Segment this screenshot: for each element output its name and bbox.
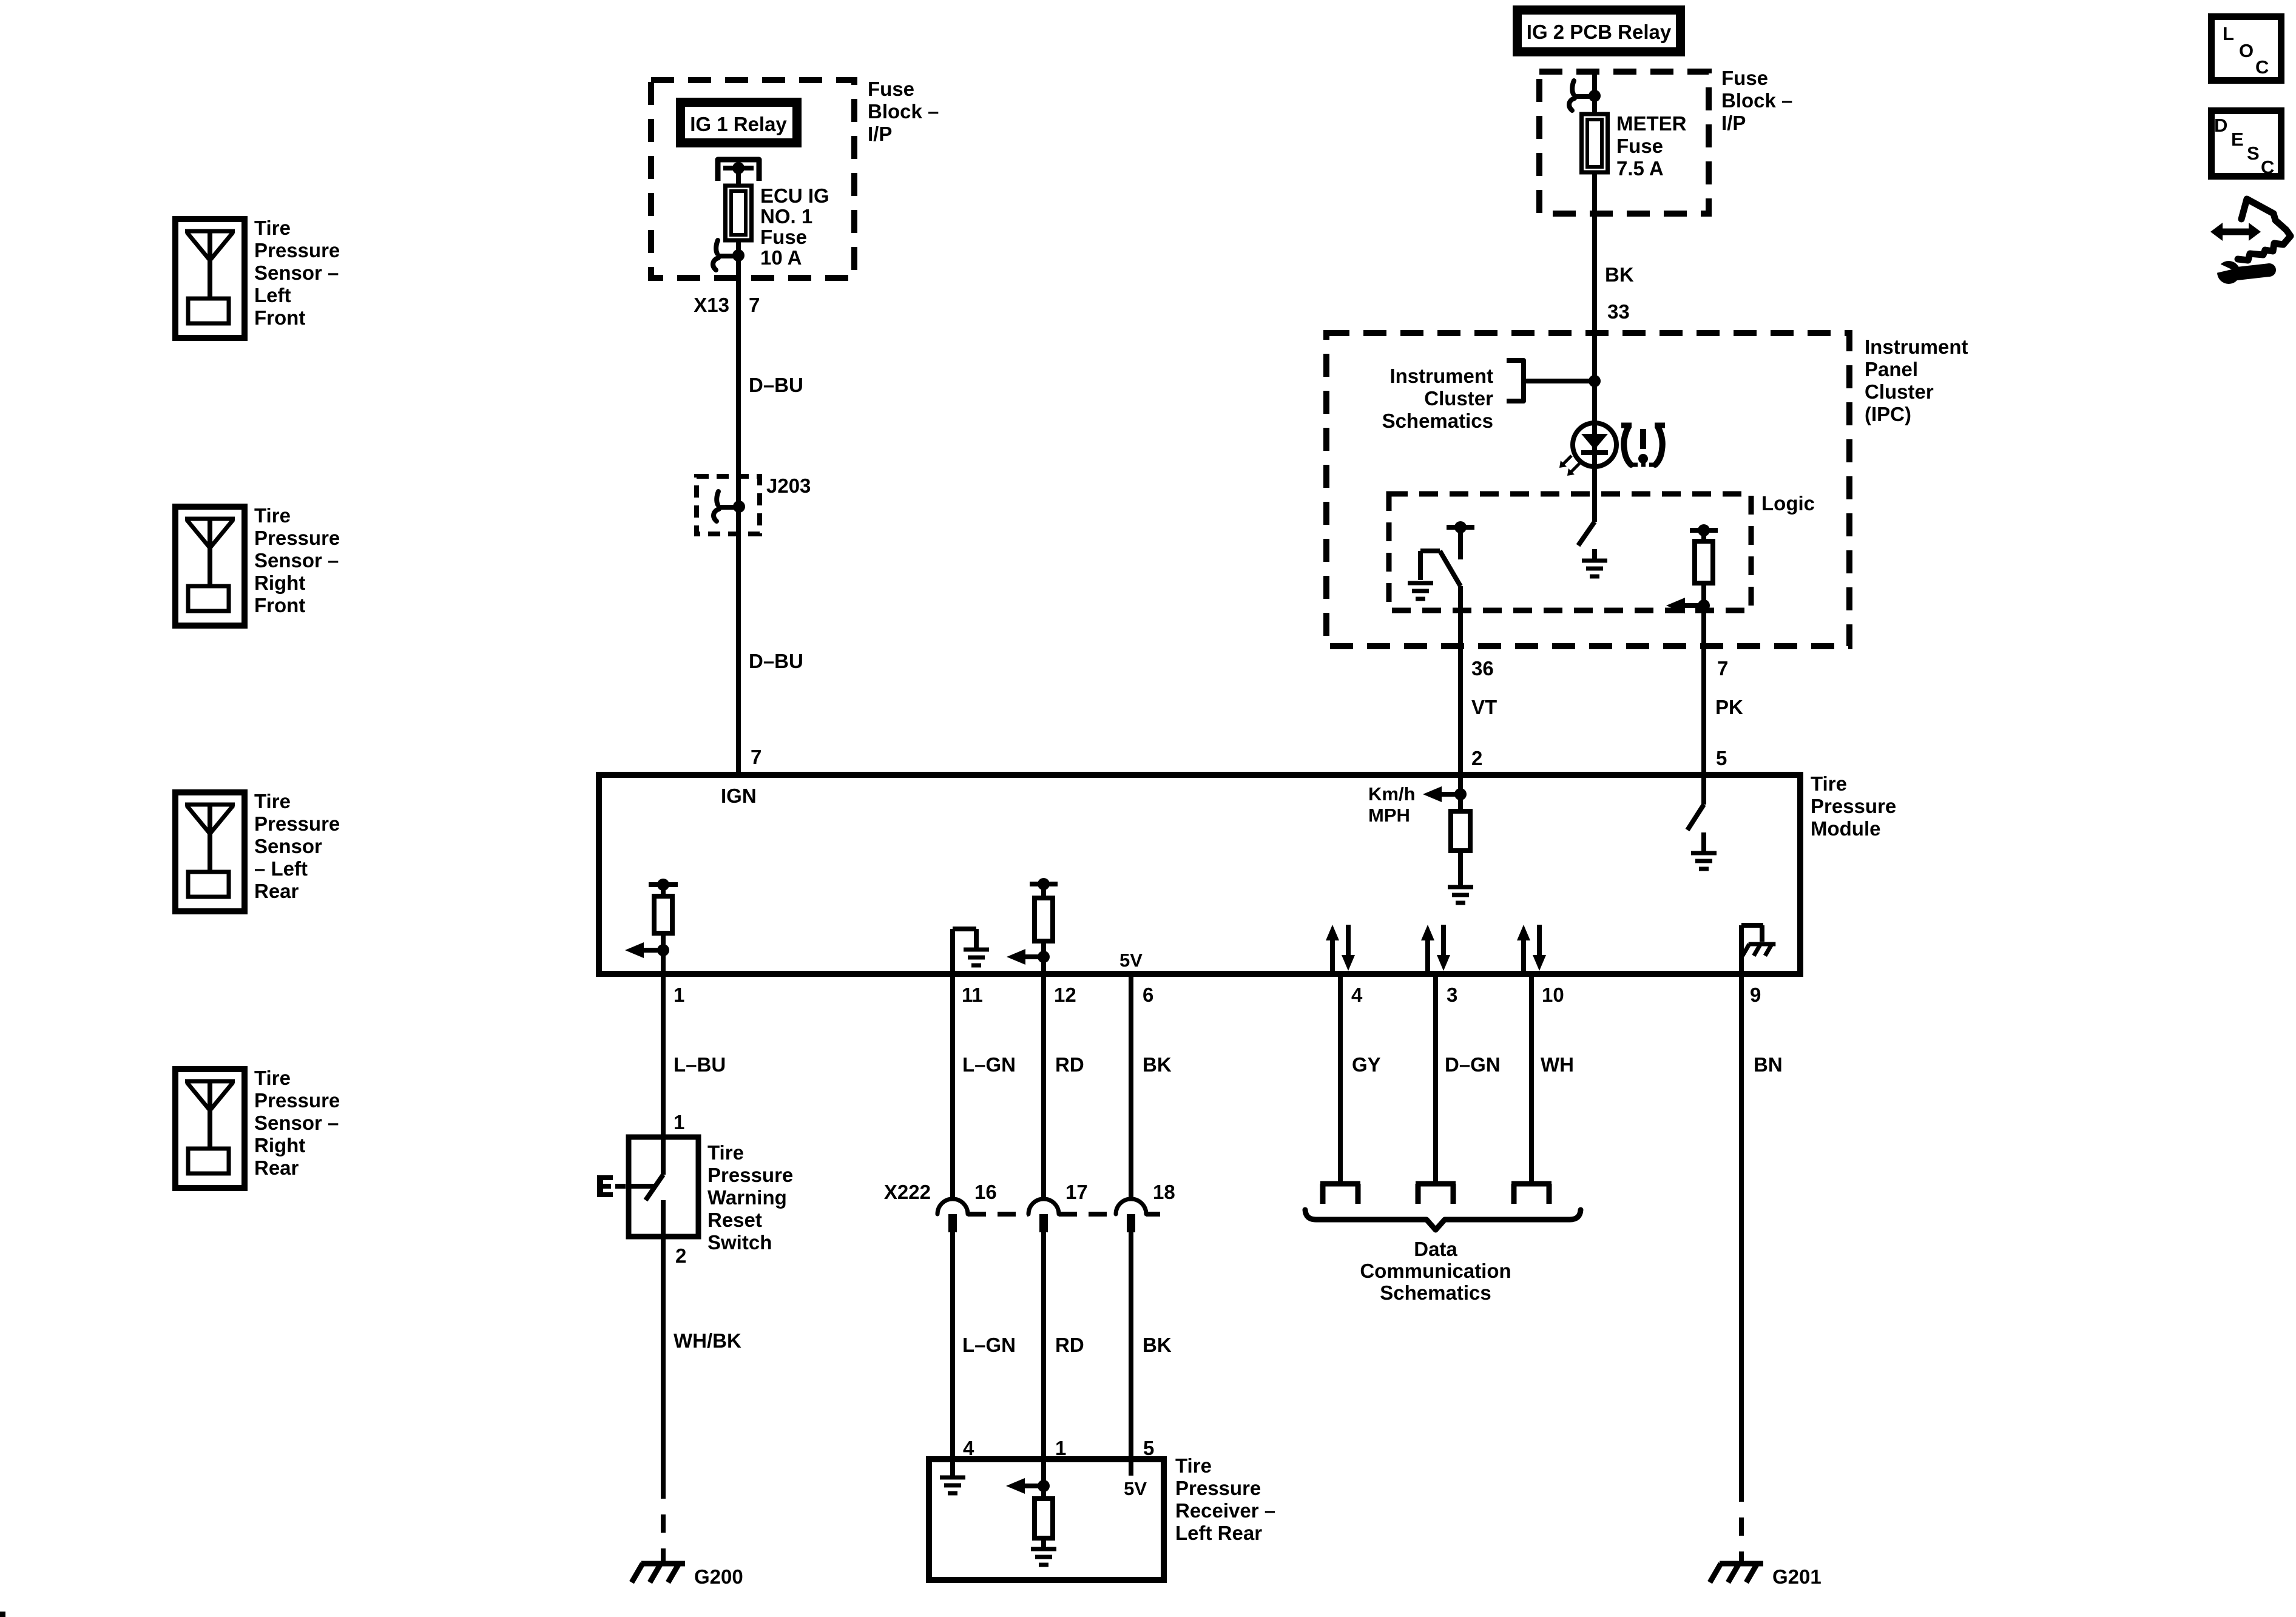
svg-text:7: 7 bbox=[749, 294, 760, 316]
svg-text:X222: X222 bbox=[884, 1181, 931, 1203]
svg-text:G201: G201 bbox=[1772, 1565, 1822, 1588]
svg-text:11: 11 bbox=[962, 984, 983, 1006]
svg-text:Schematics: Schematics bbox=[1382, 410, 1493, 432]
svg-text:36: 36 bbox=[1471, 657, 1494, 680]
svg-text:7.5 A: 7.5 A bbox=[1616, 157, 1664, 180]
svg-text:1: 1 bbox=[674, 984, 684, 1006]
svg-text:D–GN: D–GN bbox=[1445, 1053, 1501, 1076]
svg-text:Pressure: Pressure bbox=[707, 1164, 793, 1186]
svg-text:Front: Front bbox=[254, 306, 305, 329]
svg-text:Switch: Switch bbox=[707, 1231, 772, 1254]
svg-text:C: C bbox=[2261, 157, 2274, 178]
svg-text:VT: VT bbox=[1471, 696, 1497, 718]
svg-text:Front: Front bbox=[254, 594, 305, 616]
svg-text:Left: Left bbox=[254, 284, 291, 306]
svg-text:2: 2 bbox=[675, 1244, 686, 1267]
svg-text:5V: 5V bbox=[1124, 1478, 1147, 1499]
svg-text:Pressure: Pressure bbox=[254, 527, 340, 549]
svg-text:G200: G200 bbox=[694, 1565, 743, 1588]
svg-text:BK: BK bbox=[1143, 1053, 1172, 1076]
svg-text:Fuse: Fuse bbox=[1721, 67, 1768, 89]
svg-text:D–BU: D–BU bbox=[749, 650, 803, 672]
svg-text:J203: J203 bbox=[766, 474, 811, 497]
svg-text:L–BU: L–BU bbox=[674, 1053, 726, 1076]
svg-text:Sensor: Sensor bbox=[254, 835, 322, 857]
svg-text:S: S bbox=[2247, 143, 2260, 164]
svg-text:Receiver –: Receiver – bbox=[1175, 1499, 1275, 1522]
svg-text:10 A: 10 A bbox=[760, 246, 802, 269]
svg-text:Tire: Tire bbox=[254, 504, 291, 527]
svg-text:(IPC): (IPC) bbox=[1865, 403, 1911, 425]
svg-text:16: 16 bbox=[974, 1181, 997, 1203]
svg-text:METER: METER bbox=[1616, 112, 1687, 135]
svg-text:Left Rear: Left Rear bbox=[1175, 1522, 1262, 1544]
svg-text:RD: RD bbox=[1055, 1334, 1084, 1356]
svg-text:Instrument: Instrument bbox=[1865, 336, 1968, 358]
svg-text:18: 18 bbox=[1153, 1181, 1175, 1203]
svg-text:Warning: Warning bbox=[707, 1186, 787, 1209]
svg-text:Pressure: Pressure bbox=[1811, 795, 1896, 817]
svg-text:10: 10 bbox=[1542, 984, 1564, 1006]
svg-text:IGN: IGN bbox=[721, 785, 757, 807]
svg-text:Reset: Reset bbox=[707, 1209, 762, 1231]
svg-text:7: 7 bbox=[1717, 657, 1728, 680]
svg-text:Instrument: Instrument bbox=[1389, 365, 1493, 387]
svg-text:O: O bbox=[2239, 40, 2254, 61]
svg-text:4: 4 bbox=[963, 1437, 974, 1459]
svg-text:BK: BK bbox=[1605, 263, 1634, 286]
svg-text:X13: X13 bbox=[694, 294, 729, 316]
svg-text:Logic: Logic bbox=[1761, 492, 1815, 515]
svg-text:Tire: Tire bbox=[707, 1141, 744, 1164]
svg-text:Sensor –: Sensor – bbox=[254, 262, 339, 284]
svg-text:Rear: Rear bbox=[254, 1156, 299, 1179]
svg-text:5: 5 bbox=[1716, 747, 1727, 769]
svg-text:Data: Data bbox=[1414, 1238, 1457, 1260]
svg-text:Right: Right bbox=[254, 1134, 305, 1156]
svg-text:Pressure: Pressure bbox=[254, 239, 340, 262]
svg-text:Block –: Block – bbox=[1721, 89, 1792, 112]
svg-text:5V: 5V bbox=[1119, 950, 1143, 971]
svg-text:33: 33 bbox=[1607, 300, 1630, 323]
svg-text:Tire: Tire bbox=[1175, 1454, 1212, 1477]
svg-text:Pressure: Pressure bbox=[254, 812, 340, 835]
svg-text:Pressure: Pressure bbox=[1175, 1477, 1261, 1499]
svg-text:Tire: Tire bbox=[254, 1067, 291, 1089]
svg-text:E: E bbox=[2231, 129, 2244, 150]
svg-text:RD: RD bbox=[1055, 1053, 1084, 1076]
svg-text:Cluster: Cluster bbox=[1424, 387, 1493, 410]
svg-text:ECU IG: ECU IG bbox=[760, 184, 829, 207]
svg-text:D–BU: D–BU bbox=[749, 374, 803, 396]
svg-text:MPH: MPH bbox=[1368, 805, 1410, 826]
svg-text:Block –: Block – bbox=[868, 100, 939, 123]
svg-text:Fuse: Fuse bbox=[1616, 135, 1663, 157]
svg-text:Sensor –: Sensor – bbox=[254, 549, 339, 572]
svg-text:I/P: I/P bbox=[1721, 112, 1746, 134]
svg-text:Panel: Panel bbox=[1865, 358, 1918, 380]
svg-text:– Left: – Left bbox=[254, 857, 308, 880]
svg-text:Pressure: Pressure bbox=[254, 1089, 340, 1112]
svg-text:9: 9 bbox=[1750, 984, 1761, 1006]
svg-text:3: 3 bbox=[1447, 984, 1457, 1006]
svg-text:L–GN: L–GN bbox=[962, 1053, 1016, 1076]
svg-text:BK: BK bbox=[1143, 1334, 1172, 1356]
svg-text:17: 17 bbox=[1065, 1181, 1088, 1203]
svg-text:5: 5 bbox=[1143, 1437, 1154, 1459]
svg-text:C: C bbox=[2255, 56, 2269, 78]
svg-text:1: 1 bbox=[674, 1111, 684, 1133]
svg-text:I/P: I/P bbox=[868, 123, 892, 145]
svg-text:PK: PK bbox=[1715, 696, 1743, 718]
svg-text:Fuse: Fuse bbox=[760, 226, 807, 248]
svg-text:Km/h: Km/h bbox=[1368, 783, 1416, 805]
svg-text:Schematics: Schematics bbox=[1380, 1281, 1491, 1304]
svg-text:IG 2 PCB Relay: IG 2 PCB Relay bbox=[1527, 21, 1672, 43]
svg-text:BN: BN bbox=[1754, 1053, 1783, 1076]
svg-text:NO. 1: NO. 1 bbox=[760, 205, 812, 228]
svg-text:Module: Module bbox=[1811, 817, 1880, 840]
svg-text:L–GN: L–GN bbox=[962, 1334, 1016, 1356]
svg-text:Tire: Tire bbox=[1811, 772, 1847, 795]
svg-text:D: D bbox=[2214, 115, 2227, 136]
svg-text:Tire: Tire bbox=[254, 790, 291, 812]
svg-text:2: 2 bbox=[1471, 747, 1482, 769]
svg-text:Rear: Rear bbox=[254, 880, 299, 902]
svg-text:GY: GY bbox=[1352, 1053, 1381, 1076]
svg-text:Sensor –: Sensor – bbox=[254, 1112, 339, 1134]
svg-text:Cluster: Cluster bbox=[1865, 380, 1934, 403]
svg-text:7: 7 bbox=[751, 746, 761, 768]
svg-text:12: 12 bbox=[1054, 984, 1076, 1006]
svg-text:1: 1 bbox=[1055, 1437, 1066, 1459]
svg-text:L: L bbox=[2223, 23, 2234, 44]
svg-text:6: 6 bbox=[1143, 984, 1153, 1006]
svg-text:Tire: Tire bbox=[254, 217, 291, 239]
svg-text:Communication: Communication bbox=[1360, 1260, 1511, 1282]
svg-text:Right: Right bbox=[254, 572, 305, 594]
svg-text:WH/BK: WH/BK bbox=[674, 1329, 741, 1352]
svg-text:IG 1 Relay: IG 1 Relay bbox=[690, 113, 787, 135]
svg-text:WH: WH bbox=[1541, 1053, 1574, 1076]
svg-text:4: 4 bbox=[1351, 984, 1363, 1006]
svg-text:Fuse: Fuse bbox=[868, 78, 914, 100]
